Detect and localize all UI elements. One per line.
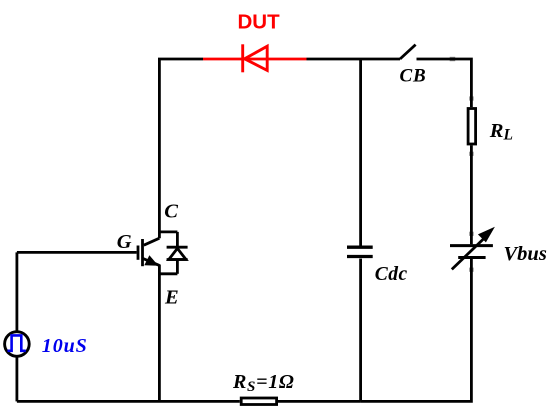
wire: freewheel diode branch vertical bottom [176,260,179,274]
wire: left branch from gate lead down to pulse source [15,252,18,330]
wire: bottom rail from pulse source branch to RS [17,400,240,403]
junction mark above Vbus [469,232,473,236]
transistor Q1 IGBT body bar [141,239,144,266]
source Vbus variable arrow [452,236,487,270]
source Vbus top plate [450,244,493,247]
pulse source V1 circle [5,332,30,357]
transistor Q1 IGBT emitter angled lead [143,258,160,265]
svg-text:C: C [164,201,178,223]
diode D1 freewheel anode line [167,258,188,261]
diode D1 freewheel triangle [169,248,186,259]
svg-text:Cdc: Cdc [375,264,408,285]
wire: top middle from DUT cathode to switch CB left terminal [307,58,401,61]
wire: left branch from pulse source down to bottom rail [15,357,18,401]
diode DUT cathode bar [241,44,244,72]
diode DUT triangle [245,46,268,70]
svg-text:G: G [117,231,132,253]
transistor Q1 IGBT collector angled lead [144,238,160,245]
capacitor Cdc bottom plate [347,255,373,258]
transistor Q1 IGBT gate bar [137,246,140,260]
junction mark below RL [469,152,473,156]
wire: top-left corner from IGBT collector up and right to DUT anode [159,59,203,238]
wire: jog from emitter to freewheel diode bottom [159,272,177,275]
svg-text:CB: CB [400,65,427,86]
svg-text:E: E [164,286,179,308]
wire: bottom rail from RS to middle branch [278,400,361,403]
source Vbus bottom plate [458,256,485,259]
pulse source V1 waveform [8,335,26,350]
resistor RL [468,109,476,145]
wire: gate lead from pulse branch to gate bar [17,251,137,254]
svg-text:DUT: DUT [238,11,281,34]
wire: emitter vertical down to bottom rail [158,265,161,402]
junction mark above RL [469,96,473,100]
wire: freewheel diode branch vertical top [176,232,179,247]
resistor RS [241,398,276,405]
wire: middle branch from top wire down to Cdc top plate [359,59,362,246]
svg-text:Vbus: Vbus [504,243,547,265]
wire: middle branch from Cdc bottom plate down to bottom wire [359,259,362,402]
svg-text:10uS: 10uS [42,335,88,357]
wire: right branch from RL down to Vbus top plate [470,145,473,244]
wire: jog from collector to freewheel diode top [159,230,177,233]
capacitor Cdc top plate [347,246,373,249]
junction mark on top-right wire [450,57,456,61]
wire: top right from switch to top-right corner [417,59,472,107]
junction mark below Vbus [469,268,473,272]
svg-text:RS=1Ω: RS=1Ω [232,371,295,395]
wire: red DUT wire segment [203,58,307,61]
switch CB blade [400,45,416,59]
diode D1 freewheel cathode bar [167,246,188,249]
transistor Q1 IGBT emitter arrow [144,255,158,265]
wire: right branch from Vbus bottom plate to bottom-right corner [361,259,472,401]
